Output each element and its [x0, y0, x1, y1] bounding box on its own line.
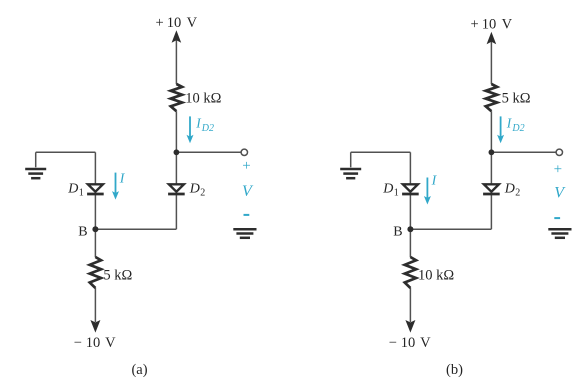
svg-text:B: B	[78, 225, 87, 240]
svg-text:1: 1	[394, 187, 399, 198]
svg-text:D: D	[504, 181, 515, 196]
svg-text:10: 10	[167, 15, 182, 31]
svg-text:1: 1	[79, 187, 84, 198]
svg-text:+: +	[554, 162, 562, 178]
svg-text:−: −	[389, 335, 397, 351]
svg-text:(b): (b)	[446, 362, 463, 378]
svg-text:V: V	[105, 335, 116, 351]
svg-text:D: D	[382, 181, 393, 196]
svg-text:10: 10	[86, 335, 101, 351]
svg-text:10 kΩ: 10 kΩ	[418, 268, 454, 284]
svg-text:10: 10	[401, 335, 416, 351]
svg-text:D: D	[189, 181, 200, 196]
svg-text:−: −	[74, 335, 82, 351]
svg-text:2: 2	[200, 187, 205, 198]
svg-text:D: D	[67, 181, 78, 196]
svg-text:V: V	[420, 335, 431, 351]
svg-text:+: +	[156, 15, 164, 31]
svg-text:5 kΩ: 5 kΩ	[502, 90, 531, 106]
svg-text:V: V	[502, 17, 513, 33]
svg-text:(a): (a)	[131, 362, 147, 378]
svg-text:D2: D2	[511, 123, 524, 134]
svg-text:+: +	[242, 158, 250, 174]
svg-text:10 kΩ: 10 kΩ	[185, 90, 221, 106]
svg-text:V: V	[187, 15, 198, 31]
svg-text:+: +	[471, 17, 479, 33]
svg-text:D2: D2	[201, 123, 214, 134]
svg-text:B: B	[393, 225, 402, 240]
svg-text:5 kΩ: 5 kΩ	[103, 268, 132, 284]
svg-text:2: 2	[515, 187, 520, 198]
svg-text:10: 10	[482, 17, 497, 33]
